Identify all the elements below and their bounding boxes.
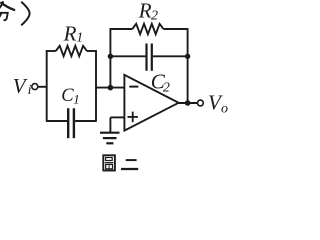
svg-text:i: i [28, 83, 32, 98]
op-amp plus sign [128, 112, 138, 123]
label C2 [151, 70, 170, 96]
wire left side of R2/C2 loop [109, 28, 111, 87]
svg-text:2: 2 [163, 80, 170, 95]
capacitor C2 [147, 44, 152, 71]
svg-text:o: o [221, 102, 228, 117]
wire inverting input line [96, 87, 124, 89]
label R1 [63, 21, 84, 45]
svg-text:2: 2 [151, 8, 158, 23]
label Vo [208, 91, 228, 117]
svg-text:V: V [13, 74, 28, 98]
caption 二 [121, 160, 138, 169]
resistor R1 [56, 46, 87, 56]
wire down to ground [109, 117, 111, 132]
caption 圖 [103, 155, 115, 170]
text fragment 分 (clipped at left edge) [0, 2, 14, 25]
ground [100, 133, 120, 144]
svg-text:C: C [61, 86, 74, 106]
wire bottom branch left of C1 [46, 120, 67, 122]
op-amp U1 [124, 75, 178, 131]
op-amp minus sign [129, 86, 138, 88]
output terminal Vo [198, 100, 204, 106]
wire non-inverting input line [110, 116, 124, 118]
wire top branch right of R1 [87, 50, 97, 52]
resistor R2 [132, 24, 163, 34]
svg-text:R: R [138, 0, 152, 23]
wire left side of R1/C1 loop [46, 50, 48, 122]
wire C2 branch left [110, 55, 145, 57]
node junction dot at inverting input [108, 85, 114, 91]
wire op-amp output [179, 102, 198, 104]
label R2 [138, 0, 158, 23]
label Vi [13, 74, 32, 98]
capacitor C1 [68, 108, 74, 138]
svg-text:1: 1 [73, 91, 80, 106]
wire C2 branch right [153, 55, 188, 57]
svg-text:1: 1 [76, 30, 83, 45]
text fragment ）full-width paren [22, 2, 30, 25]
node junction dot left of C2 branch [108, 54, 113, 59]
svg-text:R: R [63, 21, 77, 45]
wire top branch left of R1 [46, 50, 56, 52]
wire top branch right of R2 [163, 28, 187, 30]
wire right side of R1/C1 loop [95, 50, 97, 122]
wire bottom branch right of C1 [75, 120, 96, 122]
wire from Vi terminal to loop [38, 86, 48, 88]
label C1 [61, 86, 80, 106]
input terminal Vi [32, 84, 38, 90]
wire right side of R2/C2 loop down to output [187, 28, 189, 103]
node junction dot right of C2 branch [185, 54, 190, 59]
node junction dot at output [185, 100, 191, 106]
wire top branch left of R2 [110, 28, 132, 30]
